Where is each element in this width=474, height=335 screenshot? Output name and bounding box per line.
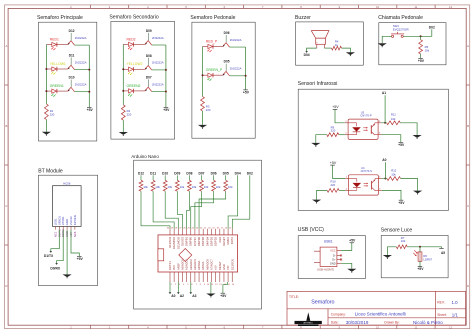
svg-text:+5V: +5V [418,59,425,63]
resistor R14 10k [151,180,155,191]
node A1 [382,91,386,95]
label R10 value [331,180,337,187]
svg-text:A5: A5 [441,251,445,255]
svg-text:10k: 10k [228,185,233,189]
wire D08 staircase to Arduino pin [187,191,190,229]
svg-text:AREF: AREF [176,263,180,270]
resistor R20 10k [224,180,228,191]
wire left rail secondario [122,44,124,104]
svg-text:D8/PB0: D8/PB0 [189,236,193,245]
svg-text:+5V: +5V [398,143,405,147]
svg-text:1/1: 1/1 [452,312,459,317]
svg-text:Liceo Scientifico Antonelli: Liceo Scientifico Antonelli [355,312,406,317]
svg-text:D06: D06 [211,172,217,176]
svg-text:LED1: LED1 [53,218,57,225]
svg-text:A2: A2 [180,294,184,298]
svg-text:A: A [5,44,7,48]
svg-text:D10: D10 [69,76,75,80]
wire D09 staircase to Arduino pin [177,191,182,229]
wire junction to resistor R12 [385,178,387,180]
ground USB [347,269,356,273]
wire +5V to pin1 sensore IR secondario [333,165,346,178]
wire pin2 to resistor R10 [339,189,345,191]
svg-text:A2/ADC2: A2/ADC2 [189,259,193,270]
node A0 [169,292,176,298]
wire buzzer left pin to node D04 [307,48,317,52]
node D10 [162,172,168,176]
transistor D07 2N2222A [145,75,164,91]
svg-text:NC6: NC6 [73,231,77,237]
svg-text:Date:: Date: [331,321,339,325]
svg-text:A0: A0 [382,158,386,162]
box Semaforo Principale [37,15,97,141]
svg-text:A0: A0 [171,294,175,298]
wire R5 to +5V [420,54,422,58]
svg-text:D05: D05 [223,172,229,176]
svg-text:GND: GND [65,219,69,225]
wire D09 to resistor [176,175,178,180]
resistor R11 10k [387,121,401,125]
svg-text:10k: 10k [167,185,172,189]
svg-text:Nicolò & Pietro: Nicolò & Pietro [413,320,443,325]
wire VCC to +5V [341,243,352,251]
wire R7 to node A5 [407,247,441,249]
svg-text:GREEN1: GREEN1 [50,84,64,88]
LED RED1 [50,37,59,50]
svg-text:GND: GND [222,264,226,270]
svg-text:D3/PD3: D3/PD3 [210,236,214,246]
svg-text:VCC: VCC [330,249,336,253]
node D1/TX [44,251,54,258]
wire row GREEN2 [123,90,166,93]
node D07 [198,172,204,176]
no-connect X on D+ [340,259,342,261]
svg-text:A6/ADC6: A6/ADC6 [205,259,209,270]
transistor D08 2N2222A [145,54,164,70]
svg-text:RED2: RED2 [127,37,136,41]
bluetooth module U2 HC06 [53,182,82,237]
svg-text:B: B [467,124,469,128]
ground luce [383,255,392,259]
svg-text:+5V: +5V [220,294,227,298]
svg-text:3V3: 3V3 [172,265,176,270]
resistor R12 10k [387,177,401,181]
svg-text:10k: 10k [155,185,160,189]
node D08 [186,172,192,176]
wire HC06 TX to node D1/TX [51,230,60,252]
svg-text:220: 220 [331,183,336,187]
svg-text:+5V: +5V [77,257,84,261]
svg-text:D11: D11 [150,172,156,176]
junction pin4 sensore IR secondario [382,178,387,180]
wire D02 to Arduino pin [232,175,250,228]
Drawn By field [384,320,443,325]
svg-text:2N2222A: 2N2222A [152,36,164,40]
box Buzzer [295,15,363,65]
svg-text:TITLE:: TITLE: [289,295,299,299]
junction node rail secondario row 3 [122,90,167,93]
ground secondario [119,132,128,136]
label 10k [180,185,185,189]
svg-text:RED_P: RED_P [206,39,218,43]
svg-text:RESET: RESET [222,236,226,245]
svg-text:YELLOW2: YELLOW2 [127,62,143,66]
wire pedonale resistor to ground [202,111,204,125]
resistor R7 10k [396,245,407,249]
node D12 [138,172,144,176]
resistor R9 220 [327,133,339,137]
svg-text:D12: D12 [138,172,144,176]
wire D10 staircase to Arduino pin [165,191,178,229]
svg-text:GND: GND [330,261,336,265]
wire left rail pedonale [202,47,204,97]
svg-text:D05: D05 [224,60,230,64]
optocoupler U3 CNY70-P [345,110,382,139]
svg-text:C: C [467,204,469,208]
+5V flag sensore IR secondario LED side [330,161,337,165]
svg-text:10k: 10k [425,49,430,53]
wire right rail secondario to +5V [165,45,167,107]
node D04 [304,51,310,57]
svg-text:10k: 10k [180,185,185,189]
svg-text:D09: D09 [146,29,152,33]
svg-text:D9/PB1: D9/PB1 [185,236,189,245]
svg-text:D5/PD5: D5/PD5 [201,236,205,246]
svg-text:+5V: +5V [87,108,94,112]
wire SW1 left to ground [382,36,391,43]
node A2 [177,292,184,298]
svg-text:Sheet:: Sheet: [437,313,447,317]
node A5 [439,248,445,255]
node D04 [235,172,241,176]
wire buzzer right pin to resistor [324,47,331,49]
pushbutton SW1 EVQ22705R [391,24,409,37]
svg-text:A7/ADC7: A7/ADC7 [210,259,214,270]
+5V flag Arduino [220,293,227,298]
no-connect X on D- [340,254,342,256]
box Semaforo Pedonale [190,15,255,138]
wire D06 to resistor [213,175,215,180]
svg-text:LDR07: LDR07 [423,257,432,261]
wire D07 to resistor [201,175,203,180]
label R2 value [127,109,132,117]
svg-text:B: B [5,124,7,128]
+5V flag chiamata [418,58,425,63]
resistor R1 220 [45,104,49,120]
transistor D06 2N2222A [223,31,242,47]
wire D07 staircase to Arduino pin [191,191,202,229]
svg-text:D13/SCK: D13/SCK [168,237,172,248]
svg-text:D06: D06 [224,31,230,35]
photoresistor R6 LDR07 [413,247,432,262]
junction node rail principale row 3 [45,90,90,93]
wire D11 staircase to Arduino pin [153,191,174,229]
+5V flag BT [77,256,84,261]
svg-text:Semaforo Pedonale: Semaforo Pedonale [190,15,235,21]
svg-text:2N2222A: 2N2222A [75,36,87,40]
transistor D05 2N2222A [223,60,242,76]
svg-text:D6/PD6: D6/PD6 [197,236,201,246]
wire right rail principale to +5V [88,45,90,107]
wire D10 to resistor [164,175,166,180]
svg-text:A1: A1 [382,91,386,95]
svg-text:D1/TX1: D1/TX1 [168,261,172,270]
LED RED2 [127,37,136,50]
svg-text:10k: 10k [192,185,197,189]
box Arduino Nano [131,154,261,309]
svg-text:10k: 10k [143,185,148,189]
svg-text:VCC33: VCC33 [69,216,73,225]
svg-text:Semaforo Principale: Semaforo Principale [37,15,83,21]
svg-text:D13/SCK: D13/SCK [230,259,234,270]
ground sensore IR secondario right [413,191,422,195]
svg-text:D2/PD2: D2/PD2 [214,236,218,246]
wire R12 to ground [401,179,418,191]
Sheet field [437,312,458,317]
+5V flag principale [87,107,94,112]
+5V flag secondario [163,107,170,112]
svg-text:+5V: +5V [332,105,339,109]
label R11 value [391,113,396,121]
ground chiamata [378,43,387,47]
wire Arduino GND down [210,282,212,294]
ground buzzer [346,52,355,56]
svg-text:D: D [5,284,7,288]
svg-text:D0/RX: D0/RX [226,237,230,245]
svg-text:D12: D12 [69,29,75,33]
svg-text:Arduino Nano: Arduino Nano [131,154,159,159]
wire secondario resistor to ground [122,120,124,132]
+5V flag sensore IR principale LED side [332,105,339,109]
buzzer LS1 speaker symbol [311,31,329,48]
svg-text:D-: D- [333,253,336,257]
svg-text:USB (VCC): USB (VCC) [298,227,324,233]
resistor R16 10k [175,180,179,191]
label R7 value [401,236,406,243]
svg-text:D4/PD4: D4/PD4 [205,236,209,246]
junction node rail secondario row 2 [122,68,167,71]
svg-text:C: C [5,204,7,208]
LED YELLOW2 [127,62,143,75]
junction R7/LDR [419,246,421,248]
svg-text:2N2222A: 2N2222A [230,67,242,71]
ground sensore IR secondario left [312,200,321,204]
svg-text:RED1: RED1 [50,37,59,41]
wire LDR to +5V [419,261,421,266]
svg-text:D08: D08 [186,172,192,176]
wire SW1 right to node D02 [403,29,432,36]
wire HC06 RX to node D0/RX [57,230,64,264]
Company field [331,312,406,317]
svg-text:D1/TX: D1/TX [44,254,54,258]
wire D12 staircase to Arduino pin [141,191,170,229]
ground sensore IR principale right [413,135,422,139]
svg-text:USB1: USB1 [324,239,333,243]
box Chiamata Pedonale [378,15,446,65]
title block [287,291,466,325]
junction SW1/R5 [420,35,422,37]
box BT Module [38,169,97,286]
box Sensori Infrarossi [298,81,449,211]
svg-text:RESET: RESET [218,261,222,270]
wire left rail principale [45,45,47,105]
+5V flag sensore IR secondario transistor side [398,200,405,205]
node D0/RX [50,263,61,271]
node D11 [150,172,156,176]
svg-text:10k: 10k [204,185,209,189]
svg-text:D02: D02 [247,172,253,176]
label 10k [204,185,209,189]
wire row RED1 [46,44,89,47]
svg-text:D10/SS: D10/SS [180,237,184,246]
transistor D12 2N2222A [68,29,87,45]
transistor D09 2N2222A [145,29,164,45]
+5V flag sensore IR principale transistor side [398,142,405,147]
svg-text:GND: GND [218,237,222,243]
node D09 [174,172,180,176]
svg-text:Drawn By:: Drawn By: [384,321,399,325]
junction pin4 sensore IR principale [381,122,386,124]
svg-text:D0/RX: D0/RX [50,267,61,271]
svg-text:BT Module: BT Module [38,169,63,175]
svg-text:2N2222A: 2N2222A [230,38,242,42]
svg-text:+5V: +5V [243,91,250,95]
svg-text:Semaforo: Semaforo [311,299,334,305]
label R3 value [206,104,211,112]
svg-text:D12/MISO: D12/MISO [172,237,176,249]
svg-text:2N2222A: 2N2222A [75,60,87,64]
svg-text:Semaforo Secondario: Semaforo Secondario [109,14,158,20]
svg-text:A5/SCL: A5/SCL [201,261,205,270]
svg-text:Company:: Company: [331,312,346,316]
wire ground to resistor R7 [387,247,396,255]
svg-text:ANTONELLI: ANTONELLI [304,322,314,325]
wire pin2 to resistor R9 [339,134,345,136]
svg-text:+5V: +5V [214,265,218,270]
ground BT [63,274,72,278]
resistor R2 220 [121,105,125,120]
+5V flag luce [417,267,424,272]
svg-text:D07: D07 [146,75,152,79]
label 10k [155,185,160,189]
wire Arduino A3 down [190,282,192,293]
svg-text:D08: D08 [146,54,152,58]
wire D05 to resistor [225,175,227,180]
LED RED_P [206,39,218,52]
box USB (VCC) [298,227,366,278]
box Semaforo Secondario [109,14,174,139]
wire R10 to ground [317,190,328,199]
svg-text:2N2222A: 2N2222A [152,82,164,86]
wire D12 to resistor [140,175,142,180]
svg-text:D11: D11 [69,54,75,58]
REV field [437,300,458,305]
wire to node A0 [384,162,386,178]
wire Arduino A0 down [169,282,171,293]
optocoupler U4 CNY70-S [345,166,382,195]
svg-text:D04: D04 [304,53,310,57]
svg-text:D10: D10 [162,172,168,176]
Date field [331,320,369,325]
wire row RED2 [123,43,166,46]
svg-text:REV:: REV: [437,301,445,305]
resistor R10 220 [327,189,339,193]
wire R9 to ground [316,135,327,143]
wire HC06 VCC to +5V [71,230,79,257]
label R9 value [331,125,336,132]
svg-text:D1/TX: D1/TX [230,237,234,245]
svg-text:D09: D09 [174,172,180,176]
svg-text:220: 220 [331,129,336,133]
svg-text:10k: 10k [391,117,396,121]
label 10k [143,185,148,189]
USB connector USB1 USB-A(SMT) [314,239,341,271]
wire right rail pedonale to +5V [245,47,247,90]
wire principale resistor to ground [45,120,47,132]
box Sensore Luce [381,228,448,278]
svg-text:CNY70-S: CNY70-S [361,169,373,173]
svg-text:2N2222A: 2N2222A [152,61,164,65]
svg-text:2N2222A: 2N2222A [75,83,87,87]
title Semaforo [311,299,334,305]
wire Arduino A2 down [177,282,179,293]
svg-text:D07: D07 [198,172,204,176]
node D02 [247,172,253,176]
resistor R17 10k [188,180,192,191]
label 10k [167,185,172,189]
svg-text:A3: A3 [192,294,196,298]
wire junction to resistor R11 [385,122,387,124]
svg-text:GREEN_P: GREEN_P [206,68,223,72]
svg-text:EVQ22705R: EVQ22705R [393,27,409,31]
ground Arduino [206,294,215,298]
svg-text:A: A [467,44,469,48]
svg-text:D02: D02 [429,25,435,29]
svg-text:D: D [467,284,469,288]
svg-text:Sensori Infrarossi: Sensori Infrarossi [298,81,338,87]
LED GREEN_P [206,68,223,81]
transistor D10 2N2222A [68,76,87,92]
LED YELLOW1 [50,62,66,75]
node A0 [382,158,386,162]
ground principale [42,132,51,136]
svg-text:30/03/2019: 30/03/2019 [346,320,369,325]
svg-text:HC06: HC06 [63,182,71,186]
svg-text:D7/PD7: D7/PD7 [193,236,197,246]
svg-text:URXD1: URXD1 [57,216,61,226]
wire Arduino 5V down [223,282,227,293]
resistor R15 10k [163,180,167,191]
label R4 value [335,40,339,48]
wire pin3 to +5V sensore IR principale [381,135,400,143]
svg-text:220: 220 [127,113,132,117]
wire D08 to resistor [188,175,190,180]
svg-text:Chiamata Pedonale: Chiamata Pedonale [378,15,423,21]
wire row GREEN1 [46,90,89,93]
resistor R19 10k [212,180,216,191]
svg-text:10k: 10k [401,239,406,243]
label R5 value [425,45,430,53]
svg-text:GREEN2: GREEN2 [127,84,141,88]
svg-text:220: 220 [50,113,55,117]
svg-text:220: 220 [206,108,211,112]
Arduino Nano U1 symbol [158,227,238,285]
resistor R18 10k [200,180,204,191]
node A3 [189,292,196,298]
wire GND pin to ground [341,263,352,269]
resistor R5 10k [419,40,423,54]
wire D05 staircase to Arduino pin [199,191,226,229]
